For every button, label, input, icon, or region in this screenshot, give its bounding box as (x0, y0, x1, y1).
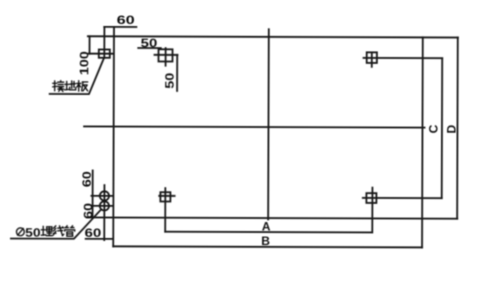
wire extension line bolt to 60 dim (103, 27, 105, 58)
wire bolt B2 cross vertical (165, 48, 167, 66)
wire dimension line 60 bottom (86, 238, 112, 240)
wire plate bottom edge (87, 217, 458, 218)
svg-text:60: 60 (85, 226, 102, 239)
wire dimension line 60 top (104, 26, 136, 28)
svg-text:B: B (261, 234, 270, 248)
svg-text:60: 60 (80, 171, 94, 187)
conduit circle 2 (100, 201, 109, 210)
wire bottom-left bolt extension down to A (164, 188, 166, 232)
wire dimension line B (113, 246, 422, 247)
char 接 (53, 81, 64, 92)
wire extension tick at x89 (89, 36, 91, 53)
label 60 left upper (80, 171, 94, 187)
bolt anchor bottom-left square (160, 192, 170, 201)
wire top-right bolt cross vertical (371, 52, 373, 66)
char 线 (53, 226, 64, 236)
label 接地板 (hand-drawn glyphs) (53, 81, 88, 92)
wire plate left edge (112, 27, 115, 246)
char 板 (77, 81, 88, 92)
wire plate top edge (88, 36, 458, 37)
wire plate right edge (421, 37, 424, 247)
wire top-right bolt extension to C (363, 57, 442, 59)
wire bolt B2 cross horizontal (155, 54, 178, 56)
wire vertical center line (267, 29, 270, 219)
capacitor grounding bolt symbol (99, 49, 110, 57)
wire bottom-right bolt extension to C (363, 197, 442, 199)
wire dimension line C (441, 58, 443, 198)
svg-text:D: D (444, 124, 458, 133)
wire leader 接地板 (50, 58, 104, 94)
bolt anchor top-left B2 square (158, 49, 172, 61)
wire left dimension chain line (92, 170, 94, 217)
label 60 left lower (81, 203, 95, 219)
wire dimension line 50 vertical (176, 55, 178, 91)
bolt anchor top-right square (367, 52, 377, 63)
wire conduit cross horizontal 1 (91, 195, 113, 197)
svg-text:A: A (262, 220, 271, 234)
wire bottom-right bolt extension down to A (371, 188, 373, 233)
label 100 vertical (78, 51, 92, 75)
bolt anchor bottom-right square (366, 193, 376, 203)
wire bottom-left bolt cross horizontal (159, 195, 174, 197)
svg-text:C: C (426, 124, 440, 133)
svg-text:50: 50 (25, 225, 40, 239)
char 管 (65, 226, 75, 237)
svg-text:60: 60 (117, 14, 135, 28)
char 埋 (41, 226, 52, 235)
wire conduit cross horizontal 2 (91, 205, 113, 207)
conduit circle 1 (100, 191, 109, 200)
wire dimension line 50 top (138, 47, 161, 49)
label Ø50埋线管 (16, 228, 24, 236)
symbol Ø (16, 228, 24, 236)
svg-text:50: 50 (163, 73, 177, 89)
wire horizontal center line (84, 126, 424, 127)
label 50 top (141, 37, 158, 50)
svg-text:50: 50 (141, 37, 158, 50)
svg-text:60: 60 (81, 203, 95, 219)
label 50 vertical (163, 73, 177, 89)
wire dimension line A (165, 231, 372, 234)
wire grounding bolt horizontal line (89, 53, 114, 55)
char 地 (65, 81, 76, 90)
label 60 top (117, 14, 135, 28)
label 60 bottom (85, 226, 102, 239)
label C vertical (426, 124, 440, 133)
svg-text:100: 100 (78, 51, 92, 75)
label D vertical (444, 124, 458, 133)
wire conduit vertical line (103, 185, 105, 240)
wire dimension line D (456, 38, 459, 219)
wire leader Ø50埋线管 (11, 210, 101, 239)
